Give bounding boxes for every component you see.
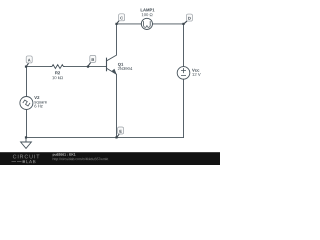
svg-text:10 kΩ: 10 kΩ bbox=[52, 75, 63, 80]
svg-text:LAB: LAB bbox=[26, 159, 36, 164]
svg-text:12 V: 12 V bbox=[192, 72, 201, 77]
svg-text:pu92661 : EK1: pu92661 : EK1 bbox=[53, 153, 76, 157]
svg-text:2N3904: 2N3904 bbox=[118, 66, 133, 71]
svg-text:A: A bbox=[28, 58, 31, 63]
svg-text:B: B bbox=[91, 57, 94, 62]
svg-text:100 Ω: 100 Ω bbox=[141, 12, 152, 17]
svg-text:C: C bbox=[120, 15, 123, 20]
svg-text:6 Hz: 6 Hz bbox=[34, 104, 43, 109]
svg-text:http://circuitlab.com/c/4kkduS: http://circuitlab.com/c/4kkduS57wmkt bbox=[52, 157, 108, 161]
svg-text:D: D bbox=[188, 16, 191, 21]
svg-text:E: E bbox=[119, 129, 122, 134]
